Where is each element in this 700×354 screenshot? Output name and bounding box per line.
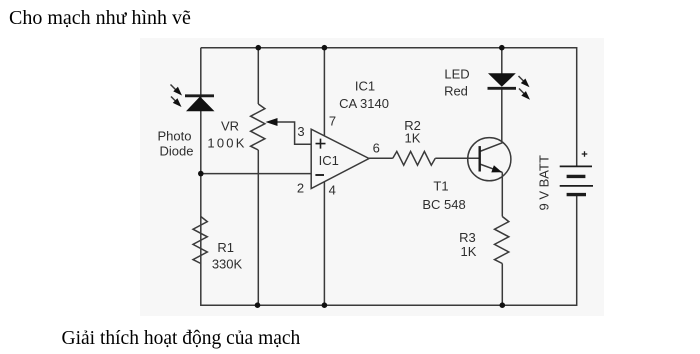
svg-text:IC1: IC1 (355, 78, 375, 93)
svg-text:100K: 100K (207, 135, 246, 150)
svg-text:IC1: IC1 (319, 153, 339, 168)
svg-text:Red: Red (444, 84, 468, 99)
svg-text:R1: R1 (217, 240, 234, 255)
svg-text:Diode: Diode (160, 143, 194, 158)
svg-text:6: 6 (373, 140, 380, 155)
svg-text:VR: VR (221, 118, 239, 133)
svg-text:3: 3 (297, 124, 304, 139)
svg-text:T1: T1 (433, 179, 448, 194)
svg-text:R3: R3 (459, 230, 476, 245)
svg-text:CA 3140: CA 3140 (339, 96, 389, 111)
svg-text:1K: 1K (461, 244, 477, 259)
svg-text:7: 7 (329, 114, 336, 129)
svg-text:4: 4 (329, 183, 336, 198)
svg-text:330K: 330K (212, 257, 243, 272)
svg-text:2: 2 (297, 181, 304, 196)
svg-text:BC 548: BC 548 (422, 197, 465, 212)
svg-text:LED: LED (444, 67, 469, 82)
svg-text:9 V BATT: 9 V BATT (537, 155, 552, 210)
svg-text:1K: 1K (405, 131, 421, 146)
svg-text:Photo: Photo (158, 129, 192, 144)
